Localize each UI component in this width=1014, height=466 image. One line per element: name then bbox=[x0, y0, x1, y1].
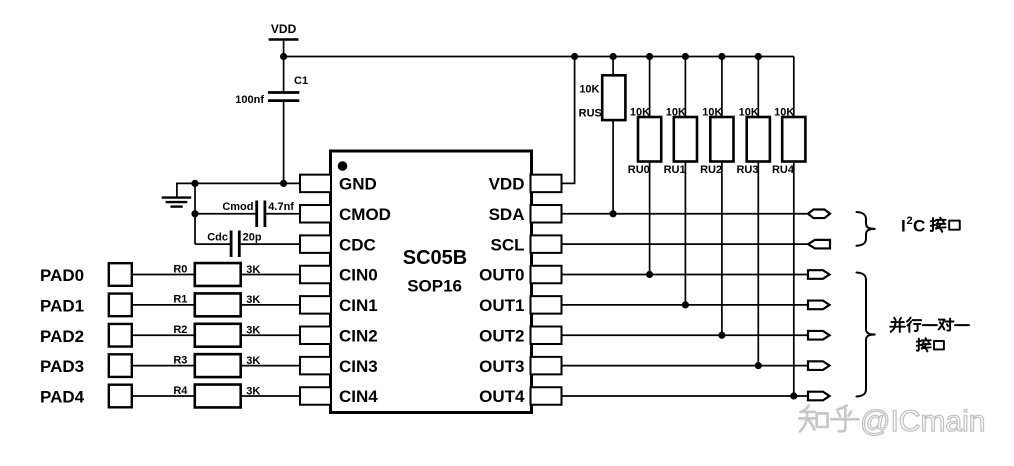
pin CIN2 (left pin box) bbox=[300, 326, 378, 345]
svg-text:VDD: VDD bbox=[489, 175, 525, 194]
power symbol VDD bbox=[269, 22, 299, 40]
brace parallel interface group bbox=[857, 273, 876, 397]
wire: top VDD rail bbox=[284, 56, 794, 58]
junction GND/left bus bbox=[191, 180, 198, 187]
wire OUT3 to connector bbox=[562, 365, 809, 367]
pin OUT3 (right pin box) bbox=[479, 357, 561, 376]
wire RU0 to OUT0 bbox=[649, 162, 651, 275]
svg-text:RUS: RUS bbox=[579, 108, 602, 120]
node PAD4 bbox=[40, 385, 132, 408]
pin CIN0 (left pin box) bbox=[300, 266, 378, 285]
svg-text:RU0: RU0 bbox=[628, 164, 650, 176]
junction rail/RU0 bbox=[646, 53, 653, 60]
pin OUT0 (right pin box) bbox=[479, 266, 561, 285]
connector OUT0 (output tag) bbox=[808, 270, 830, 279]
junction RU0/OUT0 bbox=[646, 271, 653, 278]
pin SCL (right pin box) bbox=[491, 235, 562, 254]
wire RU1 to OUT1 bbox=[684, 162, 686, 305]
svg-text:OUT0: OUT0 bbox=[479, 266, 524, 285]
wire RU2 to OUT2 bbox=[721, 162, 723, 336]
svg-text:PAD4: PAD4 bbox=[40, 388, 85, 407]
svg-text:10K: 10K bbox=[630, 106, 650, 118]
svg-text:SC05B: SC05B bbox=[403, 247, 467, 269]
resistor RU4 10K bbox=[772, 57, 805, 177]
pin CMOD (left pin box) bbox=[300, 205, 391, 224]
svg-text:CIN0: CIN0 bbox=[339, 266, 378, 285]
svg-text:OUT1: OUT1 bbox=[479, 296, 524, 315]
node: VDD rail junction bbox=[280, 53, 287, 60]
wire PAD4 to R4 bbox=[132, 395, 195, 397]
resistor RUS 10K bbox=[579, 57, 626, 121]
svg-text:RU2: RU2 bbox=[700, 164, 722, 176]
wire PAD3 to R3 bbox=[132, 365, 195, 367]
svg-text:I: I bbox=[901, 217, 906, 236]
junction RU1/OUT1 bbox=[682, 301, 689, 308]
svg-text:Cdc: Cdc bbox=[207, 232, 228, 244]
svg-text:C: C bbox=[913, 217, 925, 236]
wire R3 to CIN3 bbox=[241, 365, 301, 367]
node PAD2 bbox=[40, 324, 132, 347]
wire OUT2 to connector bbox=[562, 334, 809, 336]
svg-text:2: 2 bbox=[907, 215, 913, 227]
pin OUT1 (right pin box) bbox=[479, 296, 561, 315]
svg-text:GND: GND bbox=[339, 175, 377, 194]
pin GND (left pin box) bbox=[300, 175, 377, 194]
junction rail/RU2 bbox=[718, 53, 725, 60]
junction RU3/OUT3 bbox=[755, 362, 762, 369]
pin CIN4 (left pin box) bbox=[300, 387, 378, 406]
svg-text:R3: R3 bbox=[173, 354, 187, 366]
wire CDC row left bbox=[195, 243, 231, 245]
node PAD0 bbox=[40, 263, 132, 286]
watermark 知乎@ICmain bbox=[799, 405, 985, 438]
junction rail/RU1 bbox=[682, 53, 689, 60]
svg-text:R2: R2 bbox=[173, 324, 187, 336]
svg-text:CIN2: CIN2 bbox=[339, 326, 378, 345]
wire R1 to CIN1 bbox=[241, 304, 301, 306]
resistor RU3 10K bbox=[736, 57, 769, 177]
wire RU3 to OUT3 bbox=[757, 162, 759, 366]
wire OUT4 to connector bbox=[562, 395, 809, 397]
wire Cmod to CMOD pin bbox=[265, 213, 301, 215]
junction rail/RU3 bbox=[755, 53, 762, 60]
connector SCL (input tag) bbox=[808, 240, 830, 249]
wire RUS to SDA bbox=[612, 120, 614, 214]
junction rail/VDD riser bbox=[571, 53, 578, 60]
svg-text:OUT3: OUT3 bbox=[479, 357, 524, 376]
junction RUS/SDA bbox=[610, 210, 617, 217]
svg-text:10K: 10K bbox=[579, 84, 599, 96]
svg-text:PAD0: PAD0 bbox=[40, 266, 84, 285]
connector OUT1 (output tag) bbox=[808, 301, 830, 310]
svg-text:CIN4: CIN4 bbox=[339, 387, 378, 406]
svg-text:CMOD: CMOD bbox=[339, 205, 391, 224]
resistor RU0 10K bbox=[628, 57, 661, 177]
svg-text:OUT2: OUT2 bbox=[479, 326, 524, 345]
svg-text:10K: 10K bbox=[666, 106, 686, 118]
svg-text:SOP16: SOP16 bbox=[407, 277, 462, 296]
svg-text:10K: 10K bbox=[774, 106, 794, 118]
resistor R2 3K bbox=[173, 324, 260, 347]
resistor R4 3K bbox=[173, 385, 260, 408]
capacitor Cmod 4.7nf bbox=[222, 201, 294, 228]
resistor R0 3K bbox=[173, 263, 260, 286]
pin CIN3 (left pin box) bbox=[300, 357, 378, 376]
resistor R3 3K bbox=[173, 354, 260, 377]
svg-text:R4: R4 bbox=[173, 385, 188, 397]
label I2C 接口 bbox=[901, 215, 960, 236]
pin SDA (right pin box) bbox=[489, 205, 562, 224]
wire PAD1 to R1 bbox=[132, 304, 195, 306]
connector OUT3 (output tag) bbox=[808, 361, 830, 370]
pin CIN1 (left pin box) bbox=[300, 296, 378, 315]
pin 1 marker dot bbox=[338, 161, 348, 171]
junction RU2/OUT2 bbox=[718, 332, 725, 339]
svg-text:CIN3: CIN3 bbox=[339, 357, 378, 376]
svg-text:CIN1: CIN1 bbox=[339, 296, 378, 315]
wire OUT0 to connector bbox=[562, 274, 809, 276]
wire SCL to connector bbox=[562, 243, 809, 245]
svg-text:PAD2: PAD2 bbox=[40, 327, 84, 346]
node PAD1 bbox=[40, 294, 132, 317]
wire GND row to pin bbox=[195, 182, 301, 184]
op-amp / IC U1 SC05B SOP16 body bbox=[331, 151, 532, 413]
svg-text:100nf: 100nf bbox=[235, 94, 264, 106]
svg-text:PAD3: PAD3 bbox=[40, 357, 84, 376]
wire R0 to CIN0 bbox=[241, 274, 301, 276]
resistor R1 3K bbox=[173, 293, 260, 316]
connector OUT4 (output tag) bbox=[808, 392, 830, 401]
junction rail/RUS bbox=[610, 53, 617, 60]
svg-text:PAD1: PAD1 bbox=[40, 296, 84, 315]
capacitor C1 100nf bbox=[235, 75, 308, 106]
svg-text:20p: 20p bbox=[243, 232, 262, 244]
wire PAD0 to R0 bbox=[132, 274, 195, 276]
wire OUT1 to connector bbox=[562, 304, 809, 306]
pin VDD (right pin box) bbox=[489, 175, 562, 194]
pin CDC (left pin box) bbox=[300, 235, 376, 254]
wire left vertical bus bbox=[194, 183, 196, 244]
svg-text:OUT4: OUT4 bbox=[479, 387, 525, 406]
connector SDA (bidirectional tag) bbox=[808, 209, 830, 218]
svg-text:@ICmain: @ICmain bbox=[860, 405, 985, 438]
svg-text:CDC: CDC bbox=[339, 235, 376, 254]
svg-text:SDA: SDA bbox=[489, 205, 525, 224]
wire VDD pin to rail riser bbox=[562, 57, 575, 184]
pin OUT4 (right pin box) bbox=[479, 387, 561, 406]
connector OUT2 (output tag) bbox=[808, 331, 830, 340]
svg-text:R0: R0 bbox=[173, 263, 187, 275]
svg-text:10K: 10K bbox=[702, 106, 722, 118]
wire Cdc to CDC pin bbox=[239, 243, 300, 245]
pin OUT2 (right pin box) bbox=[479, 326, 561, 345]
wire R2 to CIN2 bbox=[241, 334, 301, 336]
svg-text:RU3: RU3 bbox=[736, 164, 758, 176]
svg-text:4.7nf: 4.7nf bbox=[268, 201, 294, 213]
svg-text:RU4: RU4 bbox=[772, 164, 795, 176]
wire R4 to CIN4 bbox=[241, 395, 301, 397]
resistor RU1 10K bbox=[664, 57, 697, 177]
wire PAD2 to R2 bbox=[132, 334, 195, 336]
svg-text:Cmod: Cmod bbox=[222, 201, 253, 213]
svg-text:SCL: SCL bbox=[491, 235, 525, 254]
node PAD3 bbox=[40, 354, 132, 377]
svg-text:RU1: RU1 bbox=[664, 164, 686, 176]
svg-text:C1: C1 bbox=[294, 75, 308, 87]
label 并行一对一 接口 bbox=[890, 318, 969, 352]
svg-text:10K: 10K bbox=[739, 106, 759, 118]
resistor RU2 10K bbox=[700, 57, 733, 177]
svg-text:R1: R1 bbox=[173, 294, 187, 306]
junction RU4/OUT4 bbox=[790, 392, 797, 399]
junction C1/GND wire bbox=[280, 180, 287, 187]
ground bbox=[162, 183, 195, 206]
wire SDA to connector bbox=[562, 213, 809, 215]
svg-text:VDD: VDD bbox=[271, 22, 297, 36]
wire CMOD row left bbox=[195, 213, 257, 215]
capacitor Cdc 20p bbox=[207, 231, 262, 258]
wire RU4 to OUT4 bbox=[793, 162, 795, 396]
wire C1 to GND net bbox=[283, 101, 285, 184]
wire VDD symbol to rail bbox=[283, 40, 285, 93]
junction left bus / CMOD row bbox=[191, 210, 198, 217]
brace I2C interface group bbox=[857, 212, 876, 246]
